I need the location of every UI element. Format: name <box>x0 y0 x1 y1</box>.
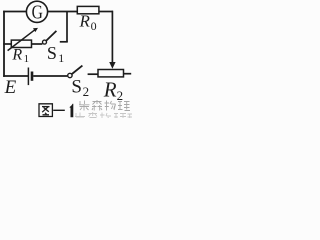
svg-text:1: 1 <box>58 51 64 65</box>
wire left vertical <box>3 11 5 77</box>
switch S1 pivot circle <box>43 40 47 44</box>
resistor R0 box <box>77 6 99 13</box>
watermark 物 row1 <box>105 101 116 111</box>
svg-text:R: R <box>103 77 117 101</box>
caption 图 character <box>39 104 52 117</box>
svg-text:G: G <box>32 1 43 23</box>
switch S2 lever <box>72 66 83 74</box>
wire top right segment <box>99 11 113 13</box>
svg-text:R: R <box>79 12 91 31</box>
switch S1 lever <box>46 31 56 41</box>
svg-text:R: R <box>11 46 22 63</box>
wire top left segment <box>3 11 26 13</box>
wire R1-branch horizontal from left vertical <box>3 43 11 45</box>
svg-text:2: 2 <box>83 84 90 99</box>
svg-text:1: 1 <box>24 53 30 65</box>
wire battery to S2 <box>33 75 67 77</box>
watermark row2 partially cut 柴森物理 <box>75 112 132 118</box>
svg-text:E: E <box>4 77 17 98</box>
svg-text:S: S <box>71 76 82 97</box>
battery E long plate <box>27 68 29 86</box>
watermark 森 row1 <box>92 100 102 111</box>
wire R2 right stub <box>124 73 132 75</box>
wire R1 to S1 <box>32 43 43 45</box>
watermark 柴 row1 <box>79 101 90 111</box>
svg-text:0: 0 <box>91 19 97 33</box>
rheostat R2 box <box>98 70 124 77</box>
caption dash <box>53 109 65 111</box>
caption 1 <box>69 104 73 118</box>
wire top middle segment <box>48 11 78 13</box>
wire bottom left segment <box>3 75 28 77</box>
svg-text:2: 2 <box>117 88 124 103</box>
battery E short plate <box>31 72 34 81</box>
watermark 理 row1 <box>118 102 130 111</box>
rheostat R1 box <box>11 40 31 47</box>
svg-text:S: S <box>47 43 57 63</box>
wire R2 left lead <box>88 73 98 75</box>
galvanometer G circle <box>26 1 47 22</box>
rheostat R1 arrow <box>8 30 35 51</box>
wire S1-branch vertical from top <box>66 12 68 42</box>
wiper arrowhead into R2 <box>109 62 115 69</box>
wire right vertical <box>111 11 113 63</box>
wire S1-branch bottom horizontal <box>60 41 68 43</box>
switch S2 pivot circle <box>68 73 72 77</box>
